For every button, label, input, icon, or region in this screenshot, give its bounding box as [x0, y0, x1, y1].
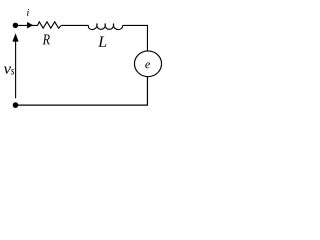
wire (inductor to top-right corner, down to source) [123, 25, 148, 51]
label e [145, 62, 150, 68]
label v_s [4, 67, 11, 74]
node B (bottom-left terminal dot) [13, 102, 19, 108]
label i [27, 9, 29, 16]
label R [43, 35, 50, 45]
wire (resistor to inductor) [61, 24, 88, 26]
voltage source e (circle) [134, 51, 161, 77]
resistor R [38, 22, 62, 28]
wire (source bottom, right-bottom corner, to bottom node) [16, 77, 148, 105]
label L [98, 37, 106, 47]
inductor L [88, 24, 122, 30]
voltage arrow v_s (shaft) [15, 41, 17, 99]
current arrow i (arrowhead on top wire) [27, 22, 33, 29]
wire top-left segment (dot to resistor) [15, 24, 37, 26]
label v_s subscript s [11, 69, 14, 75]
node A (top-left terminal dot) [13, 23, 19, 29]
voltage arrow v_s (head) [12, 33, 18, 41]
